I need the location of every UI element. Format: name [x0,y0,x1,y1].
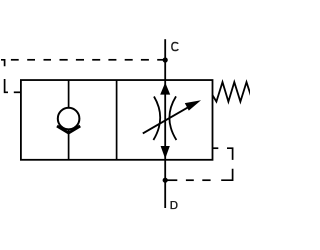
adjustability arrow shaft [143,107,189,133]
flow control up arrowhead [160,83,170,95]
valve body (main box) [21,80,213,160]
check valve line [68,80,70,160]
node D junction dot [163,178,168,183]
pilot line (dashed, from node D to right side of body) [165,148,232,180]
spring [212,82,251,102]
wire: port C line [164,39,166,80]
port C label [172,42,178,50]
node C junction dot [163,57,168,62]
restrictor left arc [153,97,160,141]
wire: port D line [164,159,166,209]
pilot line tick into box left edge [14,91,22,93]
pilot line tick into box right edge [212,147,218,149]
body divider [116,80,118,160]
port D label [171,201,178,209]
adjustability arrowhead [185,100,201,110]
check valve ball (circle) [58,108,80,130]
pilot line (dashed, from node C to left side of body) [1,60,165,93]
check valve seat chevron [57,126,80,133]
flow control down arrowhead [161,146,170,159]
restrictor right arc [169,96,176,140]
flow control vertical line [164,80,166,159]
